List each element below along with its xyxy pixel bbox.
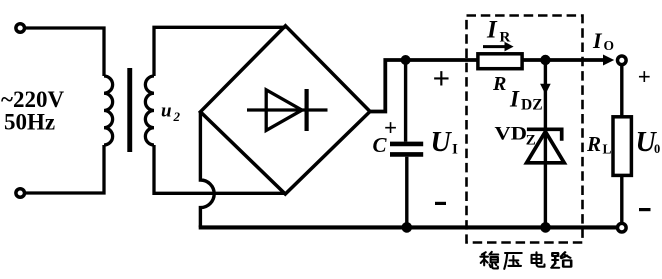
bottom rail xyxy=(199,225,618,229)
glyph dian (electric) xyxy=(532,252,545,266)
capacitor C plates xyxy=(390,142,423,147)
svg-text:DZ: DZ xyxy=(521,97,543,114)
svg-text:I: I xyxy=(486,17,498,44)
terminal J4 (output bottom) xyxy=(618,223,627,232)
svg-text:I: I xyxy=(452,142,458,158)
svg-text:R: R xyxy=(586,132,601,156)
transformer secondary winding xyxy=(145,76,154,145)
current arrow IR xyxy=(483,45,505,48)
svg-text:u: u xyxy=(161,101,172,122)
node B (zener junction, top rail) xyxy=(540,55,550,65)
node A (cap junction, top rail) xyxy=(401,55,411,65)
svg-text:L: L xyxy=(603,142,612,157)
svg-text:+: + xyxy=(638,64,651,89)
svg-text:I: I xyxy=(509,87,520,112)
transformer T1 primary winding xyxy=(104,76,113,145)
bridge diode symbol xyxy=(247,108,328,111)
terminal J1 (AC input top) xyxy=(16,24,25,33)
svg-text:2: 2 xyxy=(173,109,181,124)
wire RL to output bottom xyxy=(620,175,623,223)
svg-text:0: 0 xyxy=(654,142,660,156)
wire secondary top to bridge top corner xyxy=(154,27,286,76)
label 稳压电路 (hand-drawn glyphs) xyxy=(480,252,571,269)
capacitor C wire bottom xyxy=(405,157,408,228)
transformer core xyxy=(127,68,132,152)
capacitor C wire top xyxy=(404,60,407,142)
svg-text:+: + xyxy=(433,60,451,95)
terminal J3 (output top) xyxy=(618,56,627,65)
label - (UI) xyxy=(435,202,446,205)
zener diode VDZ triangle xyxy=(527,132,565,163)
svg-text:Z: Z xyxy=(526,132,536,148)
terminal J2 (AC input bottom) xyxy=(16,189,25,198)
current arrow IO xyxy=(603,55,614,66)
resistor RL xyxy=(613,117,631,176)
svg-text:R: R xyxy=(500,30,511,46)
svg-text:O: O xyxy=(604,38,615,53)
bridge rectifier diamond xyxy=(200,26,370,194)
svg-text:C: C xyxy=(373,133,388,157)
glyph ya (pressure) xyxy=(504,253,521,269)
svg-text:VD: VD xyxy=(495,123,528,144)
zener branch wire xyxy=(544,60,547,228)
wire secondary bottom to bridge bottom corner xyxy=(154,145,286,193)
svg-text:~220V: ~220V xyxy=(1,87,64,112)
wire output top to RL xyxy=(620,65,623,117)
svg-text:50Hz: 50Hz xyxy=(4,110,55,135)
dashed regulator box xyxy=(467,16,583,243)
wire top-left to primary xyxy=(25,28,104,76)
glyph lu (circuit/road) xyxy=(551,252,571,268)
wire bridge left corner down with hop, then bottom rail xyxy=(200,112,214,228)
wire primary bottom to terminal J2 xyxy=(25,145,104,193)
svg-text:I: I xyxy=(592,28,603,53)
label - (Uo) xyxy=(639,208,651,211)
node (zener junction, bottom rail) xyxy=(540,222,551,233)
wire bridge right corner up to top rail xyxy=(370,60,603,112)
node (cap junction, bottom rail) xyxy=(402,222,413,233)
current arrow IDZ xyxy=(540,84,551,95)
resistor R xyxy=(478,54,522,69)
zener diode VDZ cathode bar xyxy=(527,129,562,140)
svg-text:U: U xyxy=(431,127,453,158)
svg-text:R: R xyxy=(492,73,506,95)
glyph wen (stable) xyxy=(480,252,498,269)
